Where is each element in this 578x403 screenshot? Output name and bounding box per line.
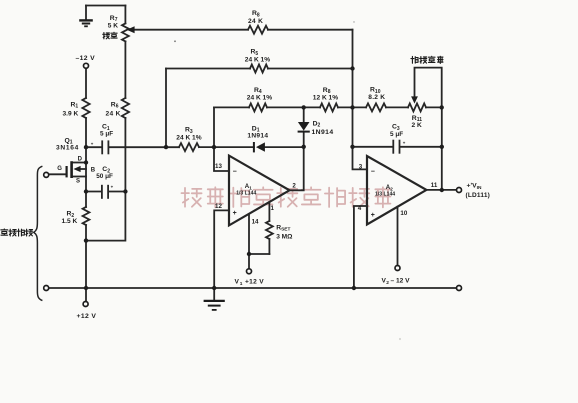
svg-text:+12 V: +12 V: [77, 313, 97, 320]
svg-text:50 μF: 50 μF: [96, 173, 113, 180]
svg-text:5 μF: 5 μF: [100, 131, 113, 138]
svg-text:24 K: 24 K: [248, 18, 263, 25]
svg-text:(LD111): (LD111): [466, 192, 491, 199]
svg-text:3 MΩ: 3 MΩ: [276, 233, 293, 240]
svg-text:24 K 1%: 24 K 1%: [176, 135, 201, 142]
svg-text:– 12 V: – 12 V: [391, 278, 411, 285]
svg-text:D: D: [78, 156, 83, 162]
svg-text:13: 13: [215, 163, 222, 170]
svg-text:−: −: [233, 168, 237, 175]
svg-text:24 K 1%: 24 K 1%: [245, 57, 270, 64]
svg-text:11: 11: [431, 182, 438, 189]
svg-text:1N914: 1N914: [312, 129, 334, 136]
svg-text:3.9 K: 3.9 K: [63, 111, 79, 118]
svg-text:3: 3: [359, 163, 363, 170]
svg-text:10: 10: [400, 210, 407, 217]
svg-text:2 K: 2 K: [412, 122, 422, 129]
svg-text:3N164: 3N164: [56, 145, 79, 152]
svg-text:2: 2: [386, 280, 389, 286]
svg-text:24 K: 24 K: [106, 111, 121, 118]
svg-text:–12 V: –12 V: [76, 55, 96, 62]
svg-text:+12 V: +12 V: [245, 279, 264, 286]
svg-text:+: +: [111, 184, 114, 189]
svg-text:1N914: 1N914: [247, 133, 268, 140]
svg-text:24 K 1%: 24 K 1%: [247, 95, 272, 102]
svg-text:B: B: [91, 168, 96, 174]
svg-text:1/3 L144: 1/3 L144: [375, 192, 395, 198]
svg-text:V: V: [235, 279, 240, 286]
svg-text:4: 4: [358, 205, 362, 212]
svg-text:+: +: [403, 141, 406, 146]
svg-text:8.2 K: 8.2 K: [368, 94, 385, 101]
svg-text:−: −: [371, 168, 375, 175]
svg-text:1/3 L144: 1/3 L144: [236, 190, 256, 196]
svg-text:1: 1: [240, 281, 243, 287]
svg-text:S: S: [76, 178, 80, 184]
svg-text:1.5 K: 1.5 K: [62, 218, 78, 225]
svg-text:12: 12: [215, 203, 222, 210]
svg-text:+: +: [371, 212, 375, 219]
svg-text:5 K: 5 K: [108, 23, 118, 30]
svg-text:12 K 1%: 12 K 1%: [313, 95, 338, 102]
svg-text:5 μF: 5 μF: [390, 131, 403, 138]
svg-text:+: +: [91, 141, 94, 146]
svg-text:14: 14: [252, 218, 259, 225]
svg-text:+: +: [233, 210, 237, 217]
svg-text:2: 2: [292, 182, 296, 189]
svg-text:1: 1: [271, 205, 275, 212]
svg-text:G: G: [57, 166, 62, 172]
